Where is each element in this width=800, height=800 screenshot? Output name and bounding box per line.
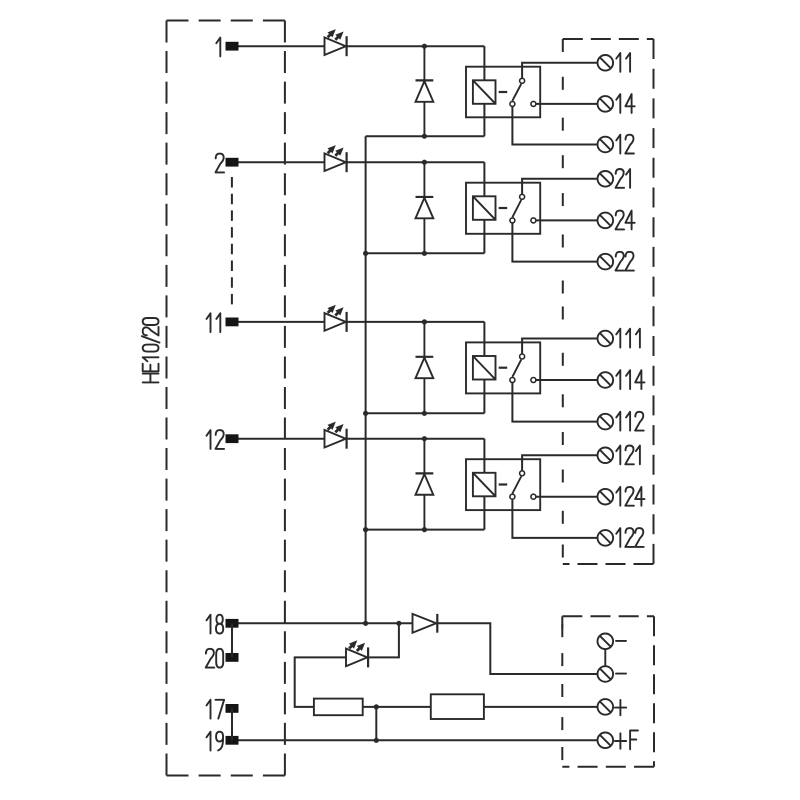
terminal minus 2	[598, 666, 614, 682]
terminal minus 1	[598, 634, 614, 650]
node junction	[422, 319, 427, 324]
relay K4	[466, 459, 540, 510]
wire pin 2 to LED	[239, 161, 325, 163]
wire R1 to R2	[363, 706, 431, 708]
diode V4	[416, 473, 434, 494]
diode V3	[416, 357, 434, 378]
LED D2	[325, 145, 347, 172]
terminal 22	[598, 254, 614, 270]
label 19	[207, 732, 224, 751]
node junction	[422, 436, 427, 441]
contact common pivot	[510, 101, 515, 106]
relay K2 coil	[473, 196, 496, 220]
relay K4 contact lever	[512, 477, 521, 494]
node bus to supply	[363, 621, 368, 626]
LED D4	[325, 422, 347, 449]
node bus-rail junction	[363, 411, 368, 416]
label 2	[216, 154, 225, 173]
wire diode to minus terminal	[437, 623, 597, 674]
LED D3	[325, 305, 347, 332]
label 124	[616, 487, 644, 506]
terminal 114	[598, 372, 614, 388]
terminal 111	[598, 331, 614, 347]
wire link 17-19	[231, 708, 233, 740]
wire LED to coil branch	[347, 161, 485, 163]
label 11	[616, 53, 630, 72]
label 122	[616, 528, 643, 547]
coil polarity minus	[499, 483, 508, 485]
wire LED to coil branch	[347, 438, 485, 440]
relay K3 contact lever	[512, 360, 521, 377]
pin 12	[226, 434, 239, 443]
wire LED to coil branch	[347, 321, 485, 323]
terminal 12	[598, 137, 614, 153]
wire contact to terminal 24	[536, 219, 597, 221]
contact NO (right)	[531, 218, 536, 223]
label 17	[207, 700, 225, 719]
wire junction to pin 19 line	[375, 707, 377, 740]
coil polarity minus	[499, 91, 508, 93]
resistor R1	[314, 699, 363, 716]
node bus-rail junction	[363, 251, 368, 256]
wire common to terminal 122	[512, 500, 597, 538]
wire coil bottom to rail	[483, 220, 485, 254]
node junction	[422, 44, 427, 49]
wire contact to terminal 21	[522, 179, 597, 194]
label 18	[207, 615, 224, 634]
wire pin 1 to LED	[239, 45, 325, 47]
wire coil return rail	[366, 529, 485, 531]
wire LED to coil branch	[347, 45, 485, 47]
terminal 14	[598, 96, 614, 112]
wire diode branch	[423, 46, 425, 80]
label 112	[616, 412, 643, 431]
terminal +F	[598, 733, 614, 749]
connector box HE10/20	[167, 21, 285, 776]
wire pin 18 to diode	[239, 622, 412, 624]
wire coil return rail	[366, 135, 485, 137]
relay K4 coil	[473, 473, 496, 497]
wire coil return rail	[366, 412, 485, 414]
node bus-rail junction	[363, 527, 368, 532]
diode V1	[416, 80, 434, 101]
wire common to terminal 12	[512, 107, 597, 145]
wire coil bottom to rail	[483, 496, 485, 529]
LED D6 (status)	[346, 640, 368, 667]
label -	[616, 640, 626, 642]
terminal 124	[598, 489, 614, 505]
wire common to terminal 112	[512, 383, 597, 422]
pin 11	[226, 318, 239, 327]
wire pin 19 to +F terminal	[239, 739, 598, 741]
node junction	[422, 527, 427, 532]
contact NO (right)	[531, 101, 536, 106]
contact common pivot	[510, 378, 515, 383]
wire coil return rail	[366, 252, 485, 254]
wire common bus	[365, 136, 367, 623]
contact NC (top)	[520, 354, 525, 359]
label 114	[616, 370, 644, 389]
terminal strip box (supply)	[562, 616, 654, 767]
terminal plus	[598, 699, 614, 715]
wire minus link	[604, 649, 606, 666]
wire contact to terminal 11	[522, 63, 597, 78]
terminal strip box (outputs)	[563, 39, 654, 564]
wire contact to terminal 124	[536, 496, 597, 498]
node junction	[422, 251, 427, 256]
wire down to coil	[483, 439, 485, 473]
wire diode branch	[423, 162, 425, 197]
pin 2	[226, 158, 239, 167]
relay K1	[466, 67, 540, 118]
node junction	[422, 160, 427, 165]
terminal 122	[598, 530, 614, 546]
wire contact to terminal 114	[536, 379, 597, 381]
coil polarity minus	[499, 367, 508, 369]
terminal 112	[598, 414, 614, 430]
wire link 18-20	[231, 623, 233, 657]
label 111	[616, 329, 640, 348]
relay K2	[466, 183, 540, 234]
contact NO (right)	[531, 378, 536, 383]
terminal 24	[598, 213, 614, 229]
wire coil bottom to rail	[483, 380, 485, 414]
relay K2 contact lever	[512, 200, 521, 217]
relay K3 coil	[473, 356, 496, 380]
wire R2 to plus terminal	[484, 706, 598, 708]
label 21	[616, 169, 631, 188]
LED D1	[325, 29, 347, 56]
pin 18	[226, 619, 239, 628]
label 1	[216, 38, 220, 57]
contact NO (right)	[531, 494, 536, 499]
relay K1 coil	[473, 80, 496, 104]
relay K1 contact lever	[512, 84, 521, 101]
wire coil bottom to rail	[483, 104, 485, 136]
contact NC (top)	[520, 194, 525, 199]
label 12	[207, 430, 225, 449]
wire to status LED cathode	[369, 623, 399, 657]
wire contact to terminal 111	[522, 339, 597, 354]
wire down to coil	[483, 46, 485, 80]
wire common to terminal 22	[512, 223, 597, 261]
terminal 121	[598, 448, 614, 464]
wire pin 11 to LED	[239, 321, 325, 323]
coil polarity minus	[499, 207, 508, 209]
label +	[615, 700, 626, 715]
wire LED anode to resistor R1	[295, 657, 346, 707]
node junction	[396, 621, 401, 626]
dashed link pins 2..11	[231, 177, 233, 307]
wire contact to terminal 14	[536, 103, 597, 105]
label -	[616, 673, 626, 675]
contact common pivot	[510, 494, 515, 499]
terminal 11	[598, 55, 614, 71]
node junction	[422, 411, 427, 416]
wire diode branch	[423, 439, 425, 474]
terminal 21	[598, 171, 614, 187]
pin 19	[226, 736, 239, 745]
label 12	[616, 135, 634, 154]
pin 17	[226, 704, 239, 713]
contact NC (top)	[520, 78, 525, 83]
label 121	[616, 446, 640, 465]
resistor R2	[431, 694, 484, 719]
node junction	[422, 134, 427, 139]
wire contact to terminal 121	[522, 455, 597, 470]
label 20	[206, 649, 224, 668]
node junction	[374, 738, 379, 743]
relay K3	[466, 342, 540, 393]
label 14	[616, 94, 634, 113]
label +F	[615, 731, 638, 750]
pin 1	[226, 42, 239, 51]
wire pin 12 to LED	[239, 438, 325, 440]
pin 20	[226, 653, 239, 662]
label 11	[207, 313, 221, 332]
wire down to coil	[483, 322, 485, 356]
diode V2	[416, 197, 434, 218]
wire diode branch	[423, 322, 425, 357]
wire down to coil	[483, 162, 485, 196]
label 24	[616, 211, 635, 230]
label HE10/20	[142, 318, 160, 382]
node junction	[374, 704, 379, 709]
contact common pivot	[510, 218, 515, 223]
contact NC (top)	[520, 471, 525, 476]
diode V5	[413, 614, 438, 633]
label 22	[616, 252, 634, 271]
